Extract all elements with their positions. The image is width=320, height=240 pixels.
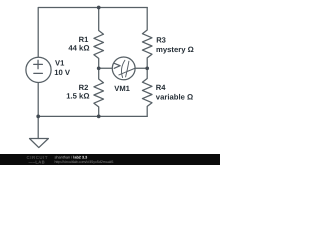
labels xyxy=(54,35,194,102)
svg-text:http://circuitlab.com/c/45yx5d: http://circuitlab.com/c/45yx5d2mxak5 xyxy=(55,160,114,164)
wire top loop from V1 top to R3 top xyxy=(38,8,147,58)
wire VM1 right xyxy=(135,67,148,69)
svg-text:R4: R4 xyxy=(156,83,166,92)
wire bottom rail xyxy=(38,115,147,117)
voltage source V1 circle xyxy=(26,57,51,82)
wire V1 bottom to bottom rail xyxy=(37,83,39,117)
wire VM1 left xyxy=(99,67,112,69)
junction dot node B (R3/R4/VM1) xyxy=(145,66,149,70)
svg-text:1.5 kΩ: 1.5 kΩ xyxy=(66,92,89,101)
svg-text:44 kΩ: 44 kΩ xyxy=(68,43,89,52)
VM1 needle xyxy=(119,69,134,75)
junction dot bottom V1/ground xyxy=(36,115,40,119)
CircuitLab logo xyxy=(27,155,49,164)
junction dot top R1 xyxy=(36,6,149,119)
ground wire xyxy=(37,116,39,138)
svg-text:R3: R3 xyxy=(156,35,166,44)
svg-text:VM1: VM1 xyxy=(114,84,130,93)
resistor R1 xyxy=(94,8,104,69)
svg-text:V1: V1 xyxy=(55,59,65,68)
resistor R2 xyxy=(94,68,104,116)
junction dot node A (R1/R2/VM1) xyxy=(97,66,101,70)
svg-text:shanthan / lab2 3.3: shanthan / lab2 3.3 xyxy=(55,155,88,159)
junction dot bottom R2 xyxy=(97,115,101,119)
VM1 pointer chevron xyxy=(114,60,134,77)
resistor R3 xyxy=(142,8,152,69)
voltmeter VM1 circle xyxy=(112,57,135,80)
V1 plus sign xyxy=(34,60,43,73)
svg-text:10 V: 10 V xyxy=(54,68,71,77)
V1 minus sign xyxy=(34,72,43,74)
VM1 dial arc right xyxy=(126,61,129,77)
ground triangle xyxy=(30,139,49,148)
svg-text:variable Ω: variable Ω xyxy=(156,93,193,102)
watermark bar xyxy=(0,154,220,165)
svg-text:—⎯LAB: —⎯LAB xyxy=(29,160,45,165)
svg-text:mystery Ω: mystery Ω xyxy=(156,45,194,54)
VM1 dial arc left xyxy=(121,60,124,77)
resistor R4 xyxy=(142,68,152,116)
